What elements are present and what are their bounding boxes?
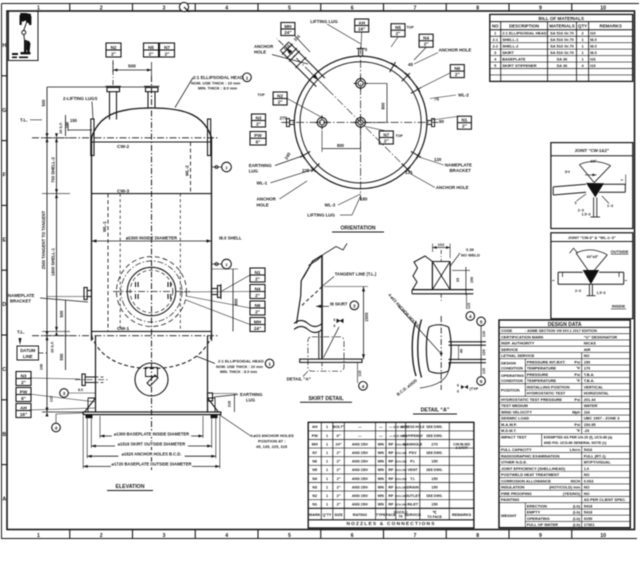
svg-text:ANCHOR: ANCHOR [257, 197, 277, 202]
svg-text:8.0: 8.0 [78, 388, 83, 392]
svg-text:Q’TY: Q’TY [323, 513, 332, 517]
svg-text:4: 4 [362, 384, 365, 389]
svg-text:45: 45 [408, 62, 413, 67]
svg-text:WN: WN [378, 494, 385, 498]
svg-text:WL-1: WL-1 [257, 180, 268, 185]
svg-text:WL-2: WL-2 [458, 92, 469, 97]
svg-text:4: 4 [225, 533, 228, 539]
svg-text:TEMPERATURE: TEMPERATURE [527, 378, 557, 383]
svg-text:6: 6 [457, 384, 459, 388]
svg-text:150: 150 [431, 460, 437, 464]
svg-text:2:1 ELLIPSOIDAL HEAD: 2:1 ELLIPSOIDAL HEAD [502, 31, 547, 36]
svg-text:0.063: 0.063 [584, 478, 595, 483]
elevation: tangent line T.L. (top) [32, 137, 219, 139]
svg-text:WN: WN [378, 477, 385, 481]
svg-text:SA 516 Gr.70: SA 516 Gr.70 [550, 50, 574, 55]
svg-text:2″: 2″ [278, 99, 284, 104]
elevation: internal dashed lines [119, 194, 121, 332]
svg-text:N2: N2 [312, 494, 317, 498]
svg-text:CW-1: CW-1 [117, 326, 129, 332]
svg-text:E: E [2, 237, 6, 243]
svg-text:1: 1 [326, 442, 328, 446]
svg-text:(Lb): (Lb) [573, 522, 581, 527]
svg-text:5: 5 [480, 319, 483, 324]
svg-text:IMPACT TEST: IMPACT TEST [501, 434, 527, 439]
DATUM LINE box [17, 346, 39, 360]
svg-text:NICAS: NICAS [584, 341, 597, 346]
svg-text:ANSI 150#: ANSI 150# [352, 494, 368, 498]
svg-text:CODE: CODE [501, 328, 513, 333]
svg-text:NO: NO [584, 491, 590, 496]
orientation: center nozzle N7 [356, 118, 366, 128]
svg-text:LETHAL SERVICE: LETHAL SERVICE [501, 353, 535, 358]
svg-text:BRACKET: BRACKET [10, 299, 31, 304]
svg-text:9: 9 [539, 533, 542, 539]
svg-text:500: 500 [41, 99, 46, 107]
svg-text:150: 150 [431, 477, 437, 481]
skirt detail: baseplate [300, 359, 362, 362]
svg-text:EXEMPTED AS PER UG-20 (f), UCS: EXEMPTED AS PER UG-20 (f), UCS-66 (a) [544, 435, 613, 439]
svg-text:A: A [2, 497, 6, 503]
svg-text:ANSI 150#: ANSI 150# [352, 477, 368, 481]
svg-text:SHELL-2: SHELL-2 [502, 44, 519, 49]
svg-text:2″: 2″ [455, 72, 461, 77]
svg-text:WN: WN [378, 442, 385, 446]
svg-text:°F: °F [576, 366, 581, 371]
svg-text:WN: WN [378, 451, 385, 455]
orientation label boxes [281, 23, 295, 36]
svg-text:3: 3 [63, 391, 66, 396]
svg-text:6: 6 [480, 379, 483, 384]
svg-text:150: 150 [431, 503, 437, 507]
svg-text:N1: N1 [461, 118, 467, 123]
svg-text:°F: °F [576, 428, 581, 433]
svg-text:150: 150 [70, 118, 78, 123]
svg-text:PSV: PSV [409, 451, 417, 455]
svg-text:N2: N2 [277, 93, 283, 98]
svg-text:MH: MH [254, 319, 262, 324]
drawing sheet frame [2, 3, 640, 5]
svg-text:LUG: LUG [246, 398, 256, 403]
svg-text:4: 4 [225, 5, 228, 11]
svg-text:2″: 2″ [165, 51, 171, 56]
svg-text:TYPE: TYPE [376, 513, 386, 517]
svg-text:2″: 2″ [255, 276, 261, 281]
svg-text:800: 800 [337, 143, 345, 148]
svg-text:⌀1720 BASEPLATE OUTSIDE DIAMET: ⌀1720 BASEPLATE OUTSIDE DIAMETER [112, 462, 192, 467]
svg-text:⌀1300 BASEPLATE INSIDE DIAMETE: ⌀1300 BASEPLATE INSIDE DIAMETER [114, 431, 189, 436]
svg-text:(Lb): (Lb) [573, 510, 581, 515]
svg-text:60°±5°: 60°±5° [587, 255, 599, 259]
svg-text:INSIDE: INSIDE [612, 304, 626, 309]
svg-text:3: 3 [353, 303, 356, 308]
detail A: anchor bolt and chair [412, 321, 416, 376]
svg-text:SCH.160: SCH.160 [395, 468, 407, 472]
dim 270 label left [281, 121, 287, 123]
svg-text:WL-3: WL-3 [325, 203, 336, 208]
svg-text:⌀1500 INSIDE DIAMETER: ⌀1500 INSIDE DIAMETER [126, 235, 178, 240]
svg-text:N2: N2 [111, 45, 117, 50]
svg-text:WL-1: WL-1 [102, 221, 107, 232]
dimension 500 between head nozzles [112, 62, 114, 72]
svg-text:N3: N3 [312, 485, 317, 489]
svg-text:ANCHOR HOLE: ANCHOR HOLE [436, 185, 469, 190]
svg-text:TK: TK [398, 515, 403, 519]
svg-text:D: D [2, 302, 6, 308]
leaders left labels [287, 99, 322, 118]
svg-text:ACCESS HOLE: ACCESS HOLE [401, 425, 426, 429]
svg-text:2″: 2″ [337, 468, 341, 472]
svg-text:2″: 2″ [337, 503, 341, 507]
svg-text:—: — [379, 434, 383, 438]
elevation: drain elbow seen in skirt [135, 363, 168, 396]
svg-text:1: 1 [37, 533, 40, 539]
svg-text:1.5~3: 1.5~3 [596, 291, 605, 295]
svg-text:AH: AH [358, 20, 365, 25]
svg-text:DRAIN: DRAIN [407, 485, 419, 489]
svg-text:4-⌀23 ANCHOR HOLES: 4-⌀23 ANCHOR HOLES [250, 433, 294, 438]
svg-text:TANGENT LINE (T.L.): TANGENT LINE (T.L.) [335, 271, 377, 276]
svg-text:6: 6 [334, 318, 336, 322]
svg-text:SHELL-1: SHELL-1 [502, 37, 519, 42]
elevation: top head nozzle N2 with flange [107, 88, 120, 92]
svg-text:t10: t10 [590, 31, 596, 36]
svg-text:N6: N6 [255, 303, 261, 308]
svg-text:550: 550 [59, 353, 64, 361]
svg-text:5418: 5418 [584, 503, 593, 508]
svg-text:218: 218 [228, 401, 232, 407]
svg-text:NAMEPLATE: NAMEPLATE [445, 163, 472, 168]
elevation: weld line WL-1 (dashed) with label [107, 194, 109, 332]
left shell nozzle stub [84, 288, 87, 300]
svg-text:TOP: TOP [407, 26, 415, 30]
svg-text:SCH.160: SCH.160 [395, 477, 407, 481]
svg-text:(Lb): (Lb) [573, 503, 581, 508]
svg-text:t8.0: t8.0 [590, 44, 597, 49]
joint detail box CW-3 & WL-1~3 [551, 233, 633, 319]
svg-text:AH: AH [312, 425, 318, 429]
svg-text:2″: 2″ [21, 380, 27, 385]
svg-text:SEE DWG.: SEE DWG. [426, 494, 443, 498]
svg-text:Psi: Psi [574, 422, 580, 427]
svg-text:2″: 2″ [337, 485, 341, 489]
svg-text:2-1: 2-1 [492, 37, 498, 42]
svg-text:H: H [2, 43, 6, 49]
detail A: baseplate section [412, 289, 473, 291]
svg-text:1: 1 [326, 503, 328, 507]
elevation: tangent line T.L. (bottom) [32, 335, 219, 337]
svg-text:BILL OF MATERIALS: BILL OF MATERIALS [538, 16, 584, 21]
svg-text:24″: 24″ [336, 442, 342, 446]
svg-text:116: 116 [584, 409, 591, 414]
joint detail box CW-1&2 [551, 143, 633, 229]
svg-text:RF: RF [388, 477, 394, 481]
manhole horizontal centerline [113, 291, 190, 293]
svg-text:TEMPERATURE: TEMPERATURE [527, 366, 557, 371]
svg-text:AIR: AIR [584, 347, 591, 352]
svg-text:ANCHOR HOLE: ANCHOR HOLE [439, 47, 472, 52]
svg-text:1500: 1500 [364, 312, 369, 322]
svg-text:1: 1 [268, 362, 271, 367]
svg-text:1: 1 [326, 451, 328, 455]
svg-text:SKIRT: SKIRT [502, 50, 514, 55]
svg-text:G: G [2, 108, 6, 114]
svg-text:DETAIL “A”: DETAIL “A” [287, 376, 311, 381]
svg-text:HOLE: HOLE [257, 202, 269, 207]
svg-text:ANSI 150#: ANSI 150# [352, 503, 368, 507]
svg-text:10: 10 [600, 533, 606, 539]
svg-text:ORIENTATION: ORIENTATION [341, 226, 376, 232]
svg-text:6: 6 [457, 390, 459, 394]
elevation: 2:1 ellipsoidal top head [92, 108, 212, 138]
right shell nozzle with flange (N1) [218, 286, 221, 298]
elevation: top head nozzle N5/N7 with flange [146, 88, 159, 92]
svg-text:2″: 2″ [337, 460, 341, 464]
svg-text:B: B [2, 432, 6, 438]
elevation: weld line WL-2 (dashed) with label [190, 142, 192, 194]
svg-text:ANSI 150#: ANSI 150# [352, 442, 368, 446]
elevation: bottom head (dashed) [92, 336, 212, 369]
skirt detail: shell/head section [321, 255, 323, 359]
svg-text:N5: N5 [395, 25, 401, 30]
svg-text:N3: N3 [256, 115, 262, 120]
detail A: dim 102 [433, 247, 451, 249]
svg-text:INCH: INCH [571, 478, 581, 483]
svg-text:1: 1 [326, 468, 328, 472]
svg-text:VERTICAL: VERTICAL [584, 384, 604, 389]
svg-text:6″: 6″ [337, 434, 341, 438]
svg-text:9159: 9159 [584, 516, 593, 521]
svg-text:: ASME SECTION VIII DIV.1 2017: : ASME SECTION VIII DIV.1 2017 EDITION [525, 329, 597, 333]
svg-text:700 SHELL-2: 700 SHELL-2 [51, 157, 56, 183]
svg-text:Psi: Psi [574, 359, 580, 364]
svg-text:6″: 6″ [21, 396, 27, 401]
svg-text:1: 1 [326, 494, 328, 498]
label box N3 2" (left) [16, 372, 31, 386]
svg-text:FIRE PROOFING: FIRE PROOFING [501, 491, 532, 496]
svg-text:MARK: MARK [309, 513, 321, 517]
svg-text:ANSI 150#: ANSI 150# [352, 468, 368, 472]
svg-text:150: 150 [431, 485, 437, 489]
svg-text:OTHER N.D.E.: OTHER N.D.E. [501, 460, 527, 465]
svg-text:800: 800 [234, 298, 239, 306]
svg-text:2:1 ELLIPSOIDAL HEAD: 2:1 ELLIPSOIDAL HEAD [218, 359, 264, 364]
svg-text:201.44: 201.44 [584, 397, 597, 402]
svg-text:ANSI 150#: ANSI 150# [352, 485, 368, 489]
svg-text:t10: t10 [590, 63, 596, 68]
svg-text:1~3: 1~3 [607, 204, 613, 208]
svg-text:BRACKET: BRACKET [450, 168, 472, 173]
svg-text:BOLT″: BOLT″ [333, 425, 345, 429]
svg-text:3≈t: 3≈t [565, 170, 571, 174]
dim 800 right side [232, 269, 234, 331]
svg-text:t16: t16 [590, 56, 596, 61]
svg-text:2″: 2″ [337, 494, 341, 498]
svg-text:6: 6 [351, 5, 354, 11]
svg-text:RF: RF [388, 494, 394, 498]
svg-text:AH: AH [20, 405, 27, 410]
svg-text:NO: NO [584, 485, 590, 490]
svg-text:RF: RF [388, 442, 394, 446]
svg-text:SA 516 Gr.70: SA 516 Gr.70 [550, 31, 574, 36]
svg-text:WN: WN [378, 468, 385, 472]
leaders from left boxes [29, 378, 80, 379]
svg-text:VENT: VENT [408, 468, 419, 472]
svg-text:“U” DESIGNATOR: “U” DESIGNATOR [584, 334, 618, 339]
detail A: skirt plate section with X hatch [431, 262, 433, 290]
svg-text:M.D.M.T.: M.D.M.T. [501, 428, 517, 433]
svg-text:PRESSURE INT./EXT.: PRESSURE INT./EXT. [527, 359, 566, 364]
svg-text:102: 102 [438, 242, 445, 247]
orientation: N5 stub at 0 deg [358, 49, 360, 56]
dim phi1500 inside diameter [92, 240, 212, 242]
dim 150 at lug [67, 124, 69, 132]
svg-text:PAINTING: PAINTING [501, 497, 519, 502]
svg-text:SERVICE: SERVICE [404, 513, 421, 517]
svg-text:TEST MEDIUM: TEST MEDIUM [501, 403, 528, 408]
svg-text:1: 1 [37, 5, 40, 11]
svg-text:DESCRIPTION: DESCRIPTION [509, 24, 539, 29]
svg-text:POSTWELD HEAT TREATMENT: POSTWELD HEAT TREATMENT [501, 472, 560, 477]
svg-text:SEISMIC LOAD: SEISMIC LOAD [501, 416, 529, 421]
svg-text:WATER: WATER [584, 403, 598, 408]
svg-text:500: 500 [128, 64, 136, 69]
svg-text:0.39: 0.39 [466, 247, 475, 252]
svg-text:RF: RF [388, 460, 394, 464]
svg-text:1: 1 [326, 434, 328, 438]
svg-text:TOP: TOP [258, 93, 266, 97]
svg-text:—: — [379, 425, 383, 429]
svg-text:1: 1 [326, 477, 328, 481]
orientation: dim 800 horizontal [321, 130, 323, 152]
svg-text:WEIGHT: WEIGHT [501, 513, 517, 518]
svg-text:6: 6 [334, 324, 336, 328]
svg-text:7: 7 [413, 533, 416, 539]
svg-text:SCH.160: SCH.160 [395, 503, 407, 507]
balloon 3 [60, 389, 69, 398]
svg-text:45, 135, 225, 315: 45, 135, 225, 315 [256, 444, 288, 449]
orientation: shell circles [294, 56, 427, 189]
svg-text:40: 40 [460, 349, 464, 353]
svg-text:2″: 2″ [337, 477, 341, 481]
svg-text:2: 2 [100, 5, 103, 11]
svg-text:35: 35 [456, 278, 460, 282]
svg-text:MH: MH [312, 442, 318, 446]
svg-text:NOZZLES & CONNECTIONS: NOZZLES & CONNECTIONS [346, 521, 435, 527]
svg-text:NO: NO [492, 24, 499, 29]
svg-text:PW: PW [20, 389, 28, 394]
svg-text:5416: 5416 [584, 447, 593, 452]
svg-text:LINE: LINE [23, 354, 33, 359]
manhole bolt marks [135, 282, 137, 287]
svg-text:Mph: Mph [572, 409, 581, 414]
svg-text:CW-3: CW-3 [117, 189, 129, 195]
svg-text:HORIZONTAL: HORIZONTAL [584, 391, 610, 396]
svg-text:270: 270 [280, 116, 288, 121]
svg-text:150: 150 [66, 122, 70, 128]
svg-text:EMPTY: EMPTY [527, 510, 541, 515]
svg-text:2″: 2″ [111, 51, 117, 56]
svg-text:WN: WN [378, 460, 385, 464]
svg-text:MATERIALS: MATERIALS [549, 24, 574, 29]
svg-text:150: 150 [584, 359, 591, 364]
svg-text:3: 3 [162, 5, 165, 11]
label box N7 2" [160, 43, 175, 57]
svg-text:UBC 1997 - ZONE 3: UBC 1997 - ZONE 3 [584, 416, 621, 421]
svg-text:SCH.160: SCH.160 [395, 460, 407, 464]
svg-text:WL-2: WL-2 [185, 165, 190, 176]
bill of materials table [490, 14, 633, 81]
svg-text:DATUM: DATUM [20, 348, 36, 353]
svg-text:8: 8 [476, 533, 479, 539]
detail A: TYP weld note [461, 385, 465, 389]
svg-text:2: 2 [100, 533, 103, 539]
svg-text:C: C [2, 367, 6, 373]
svg-text:60°: 60° [590, 159, 596, 164]
svg-text:5: 5 [288, 5, 291, 11]
svg-text:HOLE: HOLE [254, 50, 266, 55]
anchor chair left [85, 398, 96, 412]
svg-text:(Lb): (Lb) [573, 516, 581, 521]
svg-text:CONDITION: CONDITION [501, 366, 523, 371]
elevation: shell walls [91, 137, 93, 341]
svg-text:JOINT “CW-3” & “WL-1~3”: JOINT “CW-3” & “WL-1~3” [568, 236, 616, 240]
svg-text:CERTIFICATION MARK: CERTIFICATION MARK [501, 334, 544, 339]
svg-text:N3: N3 [21, 373, 27, 378]
svg-text:SCH.160: SCH.160 [395, 485, 407, 489]
svg-text:2″: 2″ [462, 124, 468, 129]
right label boxes N1,N4,N6,MH [250, 268, 265, 282]
svg-text:2″: 2″ [149, 51, 155, 56]
svg-text:39 S.F.: 39 S.F. [51, 341, 55, 353]
svg-text:MH: MH [284, 24, 292, 29]
orientation: manway MH at 315 deg [281, 51, 316, 86]
svg-text:t8.0: t8.0 [590, 37, 597, 42]
svg-text:500: 500 [59, 310, 64, 318]
elevation: skirt walls [95, 336, 97, 412]
svg-text:JOINT EFFICIENCY (SHELL/HEAD): JOINT EFFICIENCY (SHELL/HEAD) [501, 466, 566, 471]
svg-text:NOM. USE THICK : 10 mm: NOM. USE THICK : 10 mm [216, 365, 263, 369]
svg-text:2″: 2″ [424, 42, 430, 47]
svg-text:RF: RF [388, 451, 394, 455]
elevation: baseplate [83, 412, 221, 415]
svg-text:Liters: Liters [570, 447, 581, 452]
label boxes N3/PW near orientation [252, 114, 266, 127]
svg-text:°F: °F [576, 378, 581, 383]
svg-text:LUG: LUG [249, 169, 259, 174]
svg-text:2-LIFTING LUGS: 2-LIFTING LUGS [63, 96, 97, 101]
svg-text:1.5~3: 1.5~3 [581, 213, 590, 217]
svg-text:9: 9 [539, 5, 542, 11]
svg-text:TO FACE: TO FACE [427, 515, 442, 519]
svg-text:ERECTION: ERECTION [527, 503, 547, 508]
svg-text:115: 115 [482, 368, 486, 374]
svg-text:DETAIL “A”: DETAIL “A” [421, 408, 450, 414]
svg-text:7: 7 [413, 5, 416, 11]
svg-text:INSULATION: INSULATION [501, 485, 525, 490]
svg-text:T.L.: T.L. [17, 330, 25, 335]
svg-text:RADIOGRAPHIC EXAMINATION: RADIOGRAPHIC EXAMINATION [501, 453, 560, 458]
svg-text:24″: 24″ [254, 326, 262, 331]
svg-text:P.I.: P.I. [410, 460, 415, 464]
skirt detail: dim 1500 [363, 287, 365, 360]
svg-text:5: 5 [288, 533, 291, 539]
svg-text:REMARKS: REMARKS [452, 513, 472, 517]
svg-text:PW: PW [312, 434, 319, 438]
skirt detail: weld symbol [324, 327, 340, 358]
svg-text:10: 10 [600, 5, 606, 11]
orientation: dim 800 vertical [367, 82, 387, 84]
